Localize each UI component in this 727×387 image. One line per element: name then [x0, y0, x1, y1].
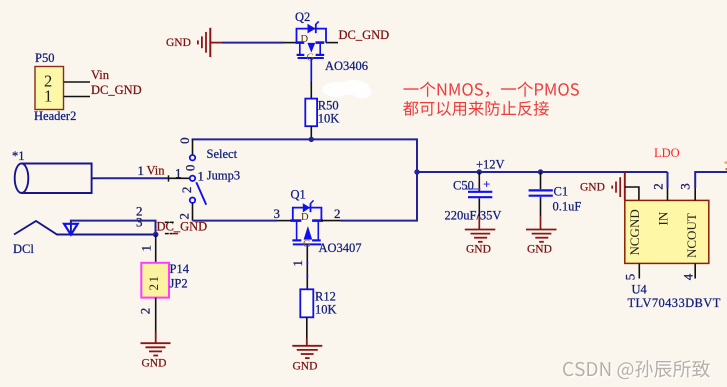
svg-text:1: 1 — [175, 165, 182, 180]
no-erc dashes below — [165, 233, 169, 235]
wire jack junction down to JP2 — [155, 235, 157, 263]
svg-text:GND: GND — [166, 37, 191, 49]
svg-text:NCGND: NCGND — [627, 209, 642, 255]
wire JP2 down — [155, 298, 157, 332]
svg-text:3: 3 — [274, 206, 281, 221]
terminal circle 1 — [190, 176, 195, 181]
junction (jack 2-3) — [153, 232, 159, 238]
ground GND (below JP2) — [141, 332, 171, 356]
barrel — [22, 164, 92, 194]
svg-text:U4: U4 — [632, 283, 648, 297]
arrow (points down = N-ch) — [307, 43, 315, 53]
wire Q1 to vertical — [341, 220, 418, 222]
svg-text:GND: GND — [466, 244, 491, 256]
white smudge — [323, 80, 372, 99]
wire riser bottom (terminal 2) — [192, 203, 194, 221]
body bracket — [297, 29, 327, 43]
svg-text:DCl: DCl — [13, 242, 34, 256]
watermark CSDN — [563, 360, 711, 381]
svg-text:+12V: +12V — [476, 158, 505, 172]
svg-text:+: + — [483, 176, 490, 191]
svg-text:21: 21 — [146, 275, 161, 291]
annotation red text line 2 — [403, 101, 549, 116]
gate bar — [298, 57, 324, 59]
svg-text:D: D — [301, 34, 309, 45]
wire U4 pin1 to GND — [625, 187, 639, 201]
resistor R50 — [305, 99, 317, 127]
svg-text:Vin: Vin — [91, 68, 110, 82]
svg-text:1: 1 — [139, 245, 154, 252]
annotation red text line 1 — [403, 82, 579, 116]
svg-text:2: 2 — [650, 183, 665, 190]
svg-text:GND: GND — [527, 244, 552, 256]
transistor Q2 AO3406 — [296, 21, 327, 58]
wire R50 to node — [310, 126, 312, 139]
pin 3 NCOUT — [694, 188, 696, 201]
pin Q1 drain (black) — [321, 220, 341, 222]
wire Q1 gate to R12 — [306, 244, 308, 247]
svg-text:JP2: JP2 — [170, 277, 188, 291]
svg-text:R50: R50 — [318, 99, 339, 113]
wire riser top (terminal 0) — [192, 139, 194, 155]
svg-text:3: 3 — [136, 214, 143, 229]
svg-text:0.1uF: 0.1uF — [553, 200, 582, 214]
svg-text:*1: *1 — [12, 149, 25, 163]
svg-text:10K: 10K — [315, 303, 337, 317]
cropped fragment right edge — [725, 162, 727, 164]
junction — [309, 137, 314, 142]
wire Q2 gate to R50 — [310, 58, 312, 81]
svg-text:IN: IN — [655, 211, 670, 225]
junction (+12V at vertical) — [414, 169, 419, 174]
svg-text:C1: C1 — [554, 185, 569, 199]
tip contact triangle — [64, 224, 78, 235]
body bracket — [293, 208, 322, 221]
svg-text:0: 0 — [183, 165, 198, 172]
svg-text:AO3406: AO3406 — [325, 59, 368, 73]
ground GND (below R12) — [292, 338, 322, 358]
svg-text:GND: GND — [142, 358, 167, 370]
tip contact stem (pin 2) — [70, 221, 72, 235]
IC U4 TLV70433DBVT — [625, 200, 709, 263]
pin Q2 source stub — [326, 42, 338, 44]
connector P50 — [34, 51, 76, 123]
channel bars — [296, 41, 305, 44]
svg-text:3: 3 — [677, 183, 692, 190]
svg-text:Select: Select — [207, 147, 238, 161]
svg-text:Header2: Header2 — [34, 109, 76, 123]
body diode D2 — [308, 24, 316, 34]
svg-text:C50: C50 — [453, 179, 474, 193]
svg-text:DC_GND: DC_GND — [91, 83, 142, 97]
terminal circle 2 — [190, 198, 195, 203]
wire R12 to GND — [306, 317, 308, 338]
switch lever — [196, 182, 206, 205]
ground GND (C1) — [526, 230, 557, 242]
plates — [297, 54, 305, 56]
channel verticals — [296, 221, 298, 240]
P50 pin 1 stub — [64, 96, 90, 98]
svg-text:Q2: Q2 — [295, 10, 310, 24]
svg-text:GND: GND — [293, 361, 318, 373]
svg-text:P50: P50 — [35, 51, 54, 65]
svg-text:LDO: LDO — [654, 146, 680, 160]
arrow (points up = P-ch) — [304, 226, 313, 240]
svg-text:1: 1 — [290, 260, 305, 267]
channel verticals — [299, 43, 301, 55]
svg-text:1: 1 — [198, 169, 205, 184]
transistor Q1 AO3407 — [290, 200, 323, 244]
connector P14 JP2 — [141, 263, 169, 298]
svg-text:0: 0 — [177, 137, 192, 144]
svg-text:5: 5 — [622, 274, 637, 281]
svg-text:1: 1 — [138, 163, 145, 178]
terminal circle 0 — [190, 155, 195, 160]
svg-text:D: D — [301, 212, 309, 223]
pin 2 IN — [667, 172, 669, 188]
gate bar — [293, 243, 322, 245]
jack DC1 — [14, 163, 156, 234]
capacitor C50 — [477, 169, 482, 174]
svg-text:P14: P14 — [170, 262, 190, 276]
svg-text:Jump3: Jump3 — [207, 169, 240, 183]
pin 4 — [694, 263, 696, 278]
pin Q1 source (black) — [277, 220, 293, 222]
svg-text:GND: GND — [580, 182, 605, 194]
svg-text:4: 4 — [680, 273, 695, 280]
svg-text:AO3407: AO3407 — [319, 241, 362, 255]
wire bottom horizontal (switch 2 to Q1) — [193, 220, 278, 222]
svg-text:Vin: Vin — [147, 164, 166, 178]
capacitor C1 — [538, 169, 543, 174]
svg-text:2: 2 — [179, 187, 194, 194]
channel bars — [290, 219, 301, 222]
svg-text:2: 2 — [334, 206, 341, 221]
wire main vertical — [416, 139, 418, 222]
pin1 stub — [92, 177, 97, 179]
resistor R12 — [300, 289, 313, 317]
svg-text:2: 2 — [176, 213, 191, 220]
no-erc dashes above — [165, 221, 169, 223]
wire pin2 top — [71, 221, 156, 235]
spring contact (pin 3) — [14, 221, 156, 235]
svg-text:1: 1 — [44, 87, 52, 106]
svg-text:R12: R12 — [315, 290, 336, 304]
body diode D1 — [303, 203, 310, 212]
svg-text:TLV70433DBVT: TLV70433DBVT — [628, 296, 721, 310]
wire top horizontal (switch 0 to vertical) — [192, 138, 418, 140]
wire +12V rail — [417, 171, 668, 173]
P50 pin 2 stub — [64, 81, 90, 83]
wire GND to Q2 drain — [222, 42, 284, 44]
plates — [292, 239, 301, 241]
svg-text:10K: 10K — [318, 112, 340, 126]
pin Q2 drain (black) — [284, 42, 297, 44]
svg-text:DC_GND: DC_GND — [157, 220, 208, 234]
pin 5 — [638, 263, 640, 278]
ground GND (top, at Q2 drain) — [166, 28, 222, 57]
wire Vin (jack to switch) — [97, 177, 169, 179]
svg-text:Q1: Q1 — [291, 188, 306, 202]
svg-text:NCOUT: NCOUT — [684, 213, 699, 258]
svg-text:2: 2 — [138, 308, 153, 315]
svg-text:DC_GND: DC_GND — [339, 28, 390, 42]
ground GND (C50) — [465, 230, 496, 242]
svg-text:220uF/35V: 220uF/35V — [445, 209, 502, 223]
